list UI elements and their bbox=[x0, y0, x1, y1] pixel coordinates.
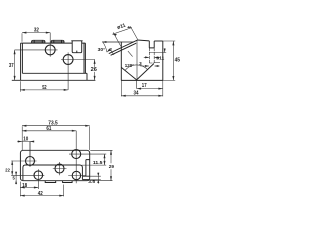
svg-text:52: 52 bbox=[42, 85, 47, 91]
svg-text:37: 37 bbox=[9, 63, 14, 69]
svg-text:34: 34 bbox=[134, 91, 139, 97]
svg-text:11.5: 11.5 bbox=[93, 160, 103, 166]
svg-text:26: 26 bbox=[91, 67, 98, 73]
svg-text:22: 22 bbox=[5, 168, 10, 173]
svg-text:32: 32 bbox=[34, 28, 39, 34]
svg-text:29: 29 bbox=[109, 164, 115, 170]
svg-text:17: 17 bbox=[142, 83, 147, 89]
svg-text:10: 10 bbox=[23, 137, 28, 143]
svg-text:2: 2 bbox=[109, 47, 112, 52]
svg-text:42: 42 bbox=[38, 191, 43, 197]
svg-text:3: 3 bbox=[139, 61, 142, 66]
svg-text:3.5: 3.5 bbox=[88, 179, 95, 185]
svg-text:18: 18 bbox=[22, 183, 27, 189]
svg-text:ø11: ø11 bbox=[156, 56, 164, 61]
svg-text:30°: 30° bbox=[98, 47, 106, 52]
svg-text:45: 45 bbox=[175, 58, 181, 64]
svg-text:120°: 120° bbox=[125, 63, 134, 68]
svg-text:61: 61 bbox=[46, 126, 51, 132]
